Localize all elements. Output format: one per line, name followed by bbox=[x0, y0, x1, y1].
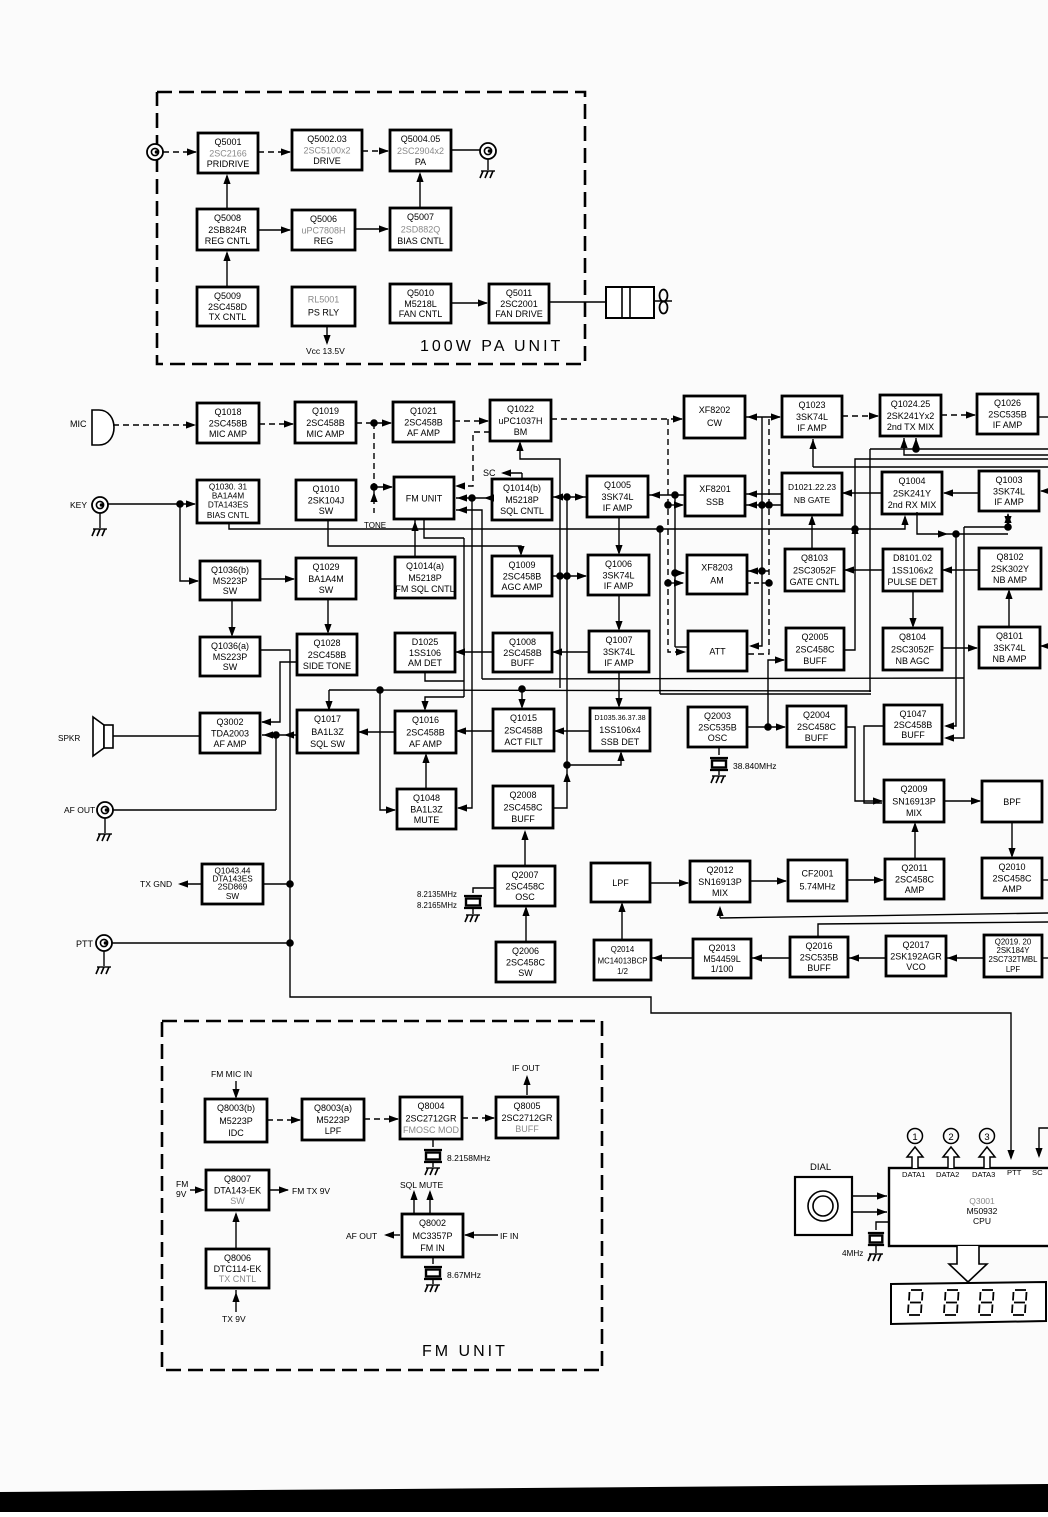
svg-text:FM: FM bbox=[176, 1179, 188, 1189]
svg-text:4MHz: 4MHz bbox=[842, 1249, 863, 1258]
svg-text:MC3357P: MC3357P bbox=[412, 1231, 452, 1241]
svg-text:BUFF: BUFF bbox=[511, 814, 535, 824]
svg-text:SW: SW bbox=[230, 1196, 245, 1206]
svg-text:3SK74L: 3SK74L bbox=[601, 492, 633, 502]
svg-text:2SC2712GR: 2SC2712GR bbox=[405, 1114, 457, 1124]
svg-text:ACT FILT: ACT FILT bbox=[504, 737, 543, 747]
svg-text:DTA143-EK: DTA143-EK bbox=[214, 1186, 261, 1196]
svg-text:1/2: 1/2 bbox=[617, 967, 628, 976]
svg-text:Vcc 13.5V: Vcc 13.5V bbox=[306, 346, 345, 356]
svg-text:DIAL: DIAL bbox=[810, 1162, 831, 1173]
svg-text:IF AMP: IF AMP bbox=[604, 658, 634, 668]
svg-text:2SD869: 2SD869 bbox=[218, 883, 248, 892]
svg-text:OSC: OSC bbox=[708, 733, 728, 743]
svg-text:Q1008: Q1008 bbox=[509, 637, 536, 647]
svg-text:CPU: CPU bbox=[973, 1216, 991, 1226]
svg-text:Q1005: Q1005 bbox=[604, 480, 631, 490]
svg-text:CW: CW bbox=[707, 418, 722, 428]
svg-text:Q2007: Q2007 bbox=[511, 870, 538, 880]
svg-text:LPF: LPF bbox=[612, 878, 629, 888]
svg-text:DATA1: DATA1 bbox=[902, 1170, 925, 1179]
svg-text:Q1036(b): Q1036(b) bbox=[211, 565, 249, 575]
svg-text:100W PA UNIT: 100W PA UNIT bbox=[420, 338, 563, 355]
svg-text:Q1014(b): Q1014(b) bbox=[503, 483, 541, 493]
svg-text:D1035.36.37.38: D1035.36.37.38 bbox=[594, 713, 645, 722]
svg-text:2SC458D: 2SC458D bbox=[208, 302, 248, 312]
svg-text:TX CNTL: TX CNTL bbox=[219, 1274, 257, 1284]
svg-text:Q5010: Q5010 bbox=[407, 288, 434, 298]
svg-text:BA1L3Z: BA1L3Z bbox=[311, 727, 344, 737]
svg-text:BIAS CNTL: BIAS CNTL bbox=[207, 511, 250, 520]
svg-text:Q8002: Q8002 bbox=[419, 1218, 446, 1228]
svg-text:IF IN: IF IN bbox=[500, 1231, 518, 1241]
svg-text:PULSE DET: PULSE DET bbox=[887, 577, 938, 587]
svg-text:Q2014: Q2014 bbox=[611, 945, 635, 954]
svg-text:3SK74L: 3SK74L bbox=[602, 571, 634, 581]
svg-text:2SC458B: 2SC458B bbox=[503, 648, 542, 658]
svg-text:Q1028: Q1028 bbox=[313, 638, 340, 648]
svg-text:SSB DET: SSB DET bbox=[601, 737, 640, 747]
svg-text:3: 3 bbox=[984, 1132, 989, 1143]
svg-text:2SC458B: 2SC458B bbox=[894, 720, 933, 730]
svg-text:Q2009: Q2009 bbox=[900, 784, 927, 794]
svg-text:Q1030. 31: Q1030. 31 bbox=[209, 483, 248, 492]
svg-text:BUFF: BUFF bbox=[803, 656, 827, 666]
svg-text:M5223P: M5223P bbox=[219, 1116, 253, 1126]
svg-text:KEY: KEY bbox=[70, 500, 87, 510]
svg-text:IF AMP: IF AMP bbox=[797, 423, 827, 433]
svg-text:Q2019. 20: Q2019. 20 bbox=[995, 938, 1032, 947]
svg-text:Q1016: Q1016 bbox=[412, 715, 439, 725]
svg-text:2SK192AGR: 2SK192AGR bbox=[890, 952, 942, 962]
svg-text:2SK104J: 2SK104J bbox=[308, 496, 345, 506]
svg-text:M5218P: M5218P bbox=[408, 573, 442, 583]
svg-text:2SC2166: 2SC2166 bbox=[209, 149, 247, 159]
svg-text:5.74MHz: 5.74MHz bbox=[799, 882, 836, 892]
svg-text:ATT: ATT bbox=[709, 647, 726, 657]
svg-text:8.2135MHz: 8.2135MHz bbox=[417, 890, 457, 899]
svg-text:2SC3052F: 2SC3052F bbox=[891, 645, 935, 655]
svg-text:LPF: LPF bbox=[325, 1126, 342, 1136]
svg-text:Q2010: Q2010 bbox=[998, 862, 1025, 872]
svg-text:AMP: AMP bbox=[1002, 884, 1022, 894]
svg-text:D1025: D1025 bbox=[412, 637, 439, 647]
svg-text:1SS106x4: 1SS106x4 bbox=[599, 725, 641, 735]
svg-text:2SC458C: 2SC458C bbox=[503, 803, 543, 813]
svg-text:Q5011: Q5011 bbox=[506, 288, 532, 298]
svg-text:2SC458B: 2SC458B bbox=[306, 418, 345, 428]
svg-text:SW: SW bbox=[223, 586, 238, 596]
svg-text:Q1023: Q1023 bbox=[798, 400, 825, 410]
svg-text:BA1L3Z: BA1L3Z bbox=[410, 805, 443, 815]
svg-text:Q1009: Q1009 bbox=[508, 560, 535, 570]
svg-text:MS223P: MS223P bbox=[213, 576, 248, 586]
svg-text:TX 9V: TX 9V bbox=[222, 1314, 246, 1324]
svg-text:SW: SW bbox=[226, 892, 239, 901]
svg-text:XF8201: XF8201 bbox=[699, 484, 731, 494]
svg-text:REG: REG bbox=[314, 236, 334, 246]
svg-text:FAN CNTL: FAN CNTL bbox=[399, 309, 443, 319]
svg-text:3SK74L: 3SK74L bbox=[993, 487, 1025, 497]
svg-text:3SK74L: 3SK74L bbox=[993, 643, 1025, 653]
svg-text:2SK241Y: 2SK241Y bbox=[893, 489, 931, 499]
svg-text:Q8103: Q8103 bbox=[801, 553, 828, 563]
svg-text:Q5007: Q5007 bbox=[407, 212, 434, 222]
svg-text:9V: 9V bbox=[176, 1189, 187, 1199]
svg-text:Q2005: Q2005 bbox=[801, 632, 828, 642]
svg-text:FM UNIT: FM UNIT bbox=[406, 494, 443, 504]
svg-text:Q8003(b): Q8003(b) bbox=[217, 1103, 255, 1113]
svg-text:D8101.02: D8101.02 bbox=[893, 553, 932, 563]
svg-text:Q2006: Q2006 bbox=[512, 946, 539, 956]
svg-text:Q8006: Q8006 bbox=[224, 1253, 251, 1263]
svg-text:OSC: OSC bbox=[515, 892, 535, 902]
svg-text:Q3001: Q3001 bbox=[969, 1196, 995, 1206]
svg-text:Q2003: Q2003 bbox=[704, 711, 731, 721]
svg-text:DTA143ES: DTA143ES bbox=[208, 501, 249, 510]
svg-text:Q2016: Q2016 bbox=[805, 941, 832, 951]
svg-text:SN16913P: SN16913P bbox=[698, 877, 742, 887]
svg-text:2SC2904x2: 2SC2904x2 bbox=[397, 146, 444, 156]
svg-text:3SK74L: 3SK74L bbox=[603, 647, 635, 657]
svg-text:AGC AMP: AGC AMP bbox=[501, 582, 542, 592]
svg-text:2SK241Yx2: 2SK241Yx2 bbox=[887, 411, 935, 421]
svg-text:2SC458C: 2SC458C bbox=[506, 958, 546, 968]
svg-text:BUFF: BUFF bbox=[515, 1124, 539, 1134]
svg-text:NB AMP: NB AMP bbox=[993, 575, 1027, 585]
svg-text:GATE CNTL: GATE CNTL bbox=[790, 577, 840, 587]
svg-text:MIC AMP: MIC AMP bbox=[306, 429, 344, 439]
svg-text:Q8102: Q8102 bbox=[996, 552, 1023, 562]
svg-text:Q1026: Q1026 bbox=[994, 398, 1021, 408]
svg-text:AF OUT: AF OUT bbox=[346, 1231, 377, 1241]
svg-text:M5218L: M5218L bbox=[404, 299, 437, 309]
svg-text:Q1018: Q1018 bbox=[214, 407, 241, 417]
svg-text:SC: SC bbox=[1032, 1168, 1043, 1177]
svg-text:2SC458C: 2SC458C bbox=[895, 875, 935, 885]
svg-text:PS RLY: PS RLY bbox=[308, 308, 339, 318]
svg-text:AMP: AMP bbox=[905, 885, 925, 895]
svg-text:AM: AM bbox=[710, 576, 724, 586]
svg-text:XF8203: XF8203 bbox=[701, 563, 733, 573]
svg-text:IDC: IDC bbox=[228, 1128, 244, 1138]
svg-text:Q2008: Q2008 bbox=[509, 790, 536, 800]
svg-text:1/100: 1/100 bbox=[711, 964, 734, 974]
svg-text:2SB824R: 2SB824R bbox=[208, 225, 247, 235]
svg-text:1: 1 bbox=[912, 1132, 917, 1143]
svg-text:3SK74L: 3SK74L bbox=[796, 412, 828, 422]
svg-text:Q8003(a): Q8003(a) bbox=[314, 1103, 352, 1113]
svg-text:Q1007: Q1007 bbox=[605, 635, 632, 645]
svg-text:2SC458C: 2SC458C bbox=[992, 874, 1032, 884]
svg-text:2nd RX MIX: 2nd RX MIX bbox=[888, 500, 937, 510]
svg-text:NB AGC: NB AGC bbox=[895, 656, 930, 666]
svg-text:SPKR: SPKR bbox=[58, 734, 80, 743]
svg-text:1SS106: 1SS106 bbox=[409, 648, 441, 658]
svg-text:2SC458B: 2SC458B bbox=[404, 418, 443, 428]
svg-text:BA1A4M: BA1A4M bbox=[308, 574, 344, 584]
svg-text:BM: BM bbox=[514, 427, 528, 437]
svg-text:MUTE: MUTE bbox=[414, 815, 440, 825]
svg-text:AM DET: AM DET bbox=[408, 658, 443, 668]
svg-text:AF AMP: AF AMP bbox=[409, 739, 442, 749]
svg-text:MC14013BCP: MC14013BCP bbox=[598, 957, 648, 966]
svg-text:2SC732TMBL: 2SC732TMBL bbox=[989, 955, 1039, 964]
svg-text:Q1021: Q1021 bbox=[410, 406, 437, 416]
svg-text:2SC458B: 2SC458B bbox=[503, 572, 542, 582]
svg-text:FM MIC IN: FM MIC IN bbox=[211, 1069, 252, 1079]
svg-text:DRIVE: DRIVE bbox=[313, 156, 341, 166]
svg-text:REG CNTL: REG CNTL bbox=[205, 236, 251, 246]
svg-text:FM IN: FM IN bbox=[420, 1243, 445, 1253]
svg-text:PTT: PTT bbox=[76, 939, 94, 949]
svg-text:M54459L: M54459L bbox=[703, 954, 741, 964]
svg-text:SQL MUTE: SQL MUTE bbox=[400, 1180, 443, 1190]
svg-text:FMOSC MOD: FMOSC MOD bbox=[403, 1125, 459, 1135]
svg-text:Q1047: Q1047 bbox=[899, 709, 926, 719]
svg-text:FM UNIT: FM UNIT bbox=[422, 1343, 508, 1360]
svg-text:2SC2712GR: 2SC2712GR bbox=[501, 1113, 553, 1123]
svg-text:TDA2003: TDA2003 bbox=[211, 729, 249, 739]
svg-text:TX GND: TX GND bbox=[140, 879, 172, 889]
svg-text:Q8101: Q8101 bbox=[996, 631, 1023, 641]
svg-text:MIC AMP: MIC AMP bbox=[209, 429, 247, 439]
svg-text:Q1024.25: Q1024.25 bbox=[891, 399, 931, 409]
svg-text:Q5008: Q5008 bbox=[214, 213, 241, 223]
svg-text:Q1022: Q1022 bbox=[507, 404, 534, 414]
svg-text:IF AMP: IF AMP bbox=[604, 581, 634, 591]
svg-text:2SC458B: 2SC458B bbox=[308, 650, 347, 660]
svg-text:SN16913P: SN16913P bbox=[892, 797, 936, 807]
svg-text:Q8005: Q8005 bbox=[513, 1101, 540, 1111]
svg-text:AF AMP: AF AMP bbox=[213, 739, 246, 749]
svg-text:BUFF: BUFF bbox=[901, 730, 925, 740]
svg-text:MS223P: MS223P bbox=[213, 652, 248, 662]
svg-text:IF AMP: IF AMP bbox=[993, 420, 1023, 430]
svg-text:uPC1037H: uPC1037H bbox=[498, 416, 542, 426]
svg-text:Q8104: Q8104 bbox=[899, 632, 926, 642]
svg-text:PTT: PTT bbox=[1007, 1168, 1022, 1177]
svg-text:BPF: BPF bbox=[1003, 797, 1021, 807]
svg-text:Q1003: Q1003 bbox=[995, 475, 1022, 485]
svg-text:2SC458C: 2SC458C bbox=[505, 882, 545, 892]
svg-text:BUFF: BUFF bbox=[511, 658, 535, 668]
svg-text:LPF: LPF bbox=[1006, 965, 1021, 974]
svg-text:NB GATE: NB GATE bbox=[794, 495, 831, 505]
svg-text:38.840MHz: 38.840MHz bbox=[733, 761, 776, 771]
svg-text:MIX: MIX bbox=[906, 808, 922, 818]
svg-text:2: 2 bbox=[948, 1132, 953, 1143]
svg-text:IF AMP: IF AMP bbox=[994, 497, 1024, 507]
svg-text:SIDE TONE: SIDE TONE bbox=[303, 661, 351, 671]
svg-text:Q5002.03: Q5002.03 bbox=[307, 134, 347, 144]
svg-text:Q1017: Q1017 bbox=[314, 714, 341, 724]
svg-text:AF AMP: AF AMP bbox=[407, 428, 440, 438]
svg-text:MIX: MIX bbox=[712, 888, 728, 898]
svg-text:Q5004.05: Q5004.05 bbox=[401, 134, 441, 144]
svg-text:2nd TX MIX: 2nd TX MIX bbox=[887, 422, 934, 432]
svg-text:XF8202: XF8202 bbox=[699, 405, 731, 415]
svg-text:2SC3052F: 2SC3052F bbox=[793, 566, 837, 576]
svg-text:Q5009: Q5009 bbox=[214, 291, 241, 301]
svg-text:BUFF: BUFF bbox=[807, 963, 831, 973]
svg-text:Q1048: Q1048 bbox=[413, 793, 440, 803]
svg-text:2SC535B: 2SC535B bbox=[698, 723, 737, 733]
svg-text:Q2012: Q2012 bbox=[706, 865, 733, 875]
svg-text:NB AMP: NB AMP bbox=[992, 654, 1026, 664]
svg-text:Q5006: Q5006 bbox=[310, 214, 337, 224]
svg-text:2SC5100x2: 2SC5100x2 bbox=[303, 146, 350, 156]
svg-text:Q1029: Q1029 bbox=[312, 562, 339, 572]
svg-text:BA1A4M: BA1A4M bbox=[212, 492, 244, 501]
svg-text:SQL SW: SQL SW bbox=[310, 739, 345, 749]
svg-text:Q1015: Q1015 bbox=[510, 713, 537, 723]
svg-text:RL5001: RL5001 bbox=[308, 295, 340, 305]
svg-text:8.2165MHz: 8.2165MHz bbox=[417, 901, 457, 910]
svg-text:BIAS CNTL: BIAS CNTL bbox=[397, 236, 444, 246]
svg-text:8.2158MHz: 8.2158MHz bbox=[447, 1153, 490, 1163]
svg-text:DATA2: DATA2 bbox=[936, 1170, 959, 1179]
svg-text:Q5001: Q5001 bbox=[214, 137, 241, 147]
svg-text:PRIDRIVE: PRIDRIVE bbox=[207, 159, 250, 169]
svg-text:Q8007: Q8007 bbox=[224, 1174, 251, 1184]
svg-text:SW: SW bbox=[518, 968, 533, 978]
svg-text:Q2013: Q2013 bbox=[708, 943, 735, 953]
svg-text:Q1019: Q1019 bbox=[312, 406, 339, 416]
svg-text:Q1004: Q1004 bbox=[898, 476, 925, 486]
svg-text:IF AMP: IF AMP bbox=[603, 503, 633, 513]
svg-text:Q3002: Q3002 bbox=[216, 717, 243, 727]
svg-text:FAN DRIVE: FAN DRIVE bbox=[495, 309, 543, 319]
svg-text:M5218P: M5218P bbox=[505, 495, 539, 505]
svg-text:2SD882Q: 2SD882Q bbox=[401, 225, 441, 235]
svg-text:2SK184Y: 2SK184Y bbox=[997, 946, 1031, 955]
svg-text:Q1006: Q1006 bbox=[605, 559, 632, 569]
svg-text:2SK302Y: 2SK302Y bbox=[991, 564, 1029, 574]
svg-text:2SC535B: 2SC535B bbox=[800, 953, 839, 963]
svg-text:TX CNTL: TX CNTL bbox=[209, 312, 247, 322]
svg-text:VCO: VCO bbox=[906, 962, 926, 972]
svg-text:Q2004: Q2004 bbox=[803, 710, 830, 720]
svg-text:SW: SW bbox=[319, 506, 334, 516]
svg-text:M50932: M50932 bbox=[967, 1206, 998, 1216]
svg-text:2SC458C: 2SC458C bbox=[795, 645, 835, 655]
svg-text:FM TX 9V: FM TX 9V bbox=[292, 1186, 330, 1196]
svg-text:2SC458B: 2SC458B bbox=[504, 726, 543, 736]
svg-text:Q2011: Q2011 bbox=[901, 863, 927, 873]
svg-text:CF2001: CF2001 bbox=[801, 869, 833, 879]
svg-text:DTC114-EK: DTC114-EK bbox=[214, 1264, 262, 1274]
svg-text:2SC458C: 2SC458C bbox=[797, 722, 837, 732]
svg-text:SW: SW bbox=[319, 585, 334, 595]
svg-text:2SC458B: 2SC458B bbox=[209, 419, 248, 429]
svg-text:DATA3: DATA3 bbox=[972, 1170, 995, 1179]
svg-text:SC: SC bbox=[483, 468, 496, 478]
svg-text:2SC535B: 2SC535B bbox=[988, 410, 1027, 420]
svg-text:SQL CNTL: SQL CNTL bbox=[500, 506, 544, 516]
svg-text:FM SQL CNTL: FM SQL CNTL bbox=[395, 584, 454, 594]
svg-text:2SC458B: 2SC458B bbox=[406, 728, 445, 738]
svg-text:M5223P: M5223P bbox=[316, 1115, 350, 1125]
svg-text:uPC7808H: uPC7808H bbox=[301, 226, 345, 236]
svg-text:PA: PA bbox=[415, 157, 426, 167]
svg-text:Q8004: Q8004 bbox=[417, 1101, 444, 1111]
svg-text:Q1036(a): Q1036(a) bbox=[211, 641, 249, 651]
svg-text:AF OUT: AF OUT bbox=[64, 805, 95, 815]
svg-text:SSB: SSB bbox=[706, 497, 724, 507]
svg-text:Q1010: Q1010 bbox=[312, 484, 339, 494]
svg-text:Q2017: Q2017 bbox=[902, 940, 929, 950]
svg-text:2SC2001: 2SC2001 bbox=[500, 299, 538, 309]
svg-text:IF OUT: IF OUT bbox=[512, 1063, 540, 1073]
svg-text:8.67MHz: 8.67MHz bbox=[447, 1270, 481, 1280]
svg-text:D1021.22.23: D1021.22.23 bbox=[788, 482, 836, 492]
svg-text:SW: SW bbox=[223, 662, 238, 672]
svg-text:Q1014(a): Q1014(a) bbox=[406, 561, 444, 571]
svg-text:BUFF: BUFF bbox=[805, 733, 829, 743]
svg-text:MIC: MIC bbox=[70, 419, 87, 429]
svg-text:1SS106x2: 1SS106x2 bbox=[892, 566, 934, 576]
